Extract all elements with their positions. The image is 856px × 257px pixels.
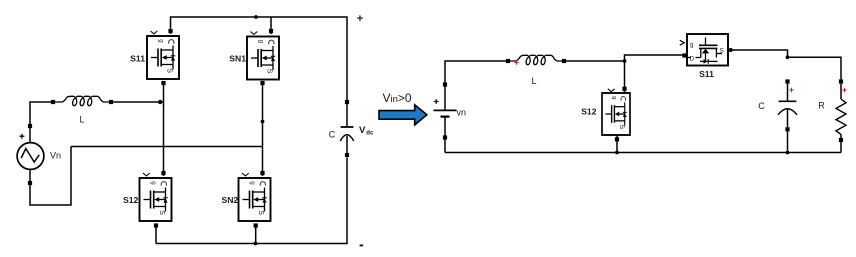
svg-text:D: D bbox=[690, 55, 695, 62]
svg-text:C: C bbox=[329, 129, 336, 139]
svg-text:Vn: Vn bbox=[50, 151, 61, 161]
svg-text:S12: S12 bbox=[123, 195, 139, 205]
svg-text:+: + bbox=[357, 13, 363, 25]
svg-text:V: V bbox=[359, 125, 366, 136]
svg-text:S12: S12 bbox=[581, 107, 597, 117]
svg-text:L: L bbox=[79, 115, 84, 125]
svg-text:dc: dc bbox=[366, 131, 374, 137]
svg-text:vn: vn bbox=[457, 108, 467, 118]
svg-text:C: C bbox=[758, 101, 765, 111]
svg-text:R: R bbox=[818, 100, 825, 110]
svg-text:S: S bbox=[720, 48, 724, 55]
svg-text:SN1: SN1 bbox=[229, 54, 246, 64]
svg-text:g: g bbox=[690, 42, 694, 49]
svg-text:SN2: SN2 bbox=[221, 195, 238, 205]
svg-text:L: L bbox=[531, 76, 536, 86]
svg-text:S11: S11 bbox=[699, 69, 714, 79]
svg-text:S11: S11 bbox=[130, 54, 145, 64]
svg-text:Vin>0: Vin>0 bbox=[383, 91, 412, 105]
